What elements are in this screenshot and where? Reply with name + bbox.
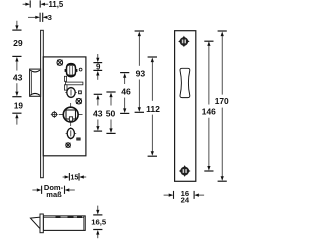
svg-text:16,5: 16,5 <box>91 218 107 227</box>
svg-text:50: 50 <box>106 109 116 119</box>
svg-text:43: 43 <box>93 109 103 119</box>
svg-text:146: 146 <box>202 106 216 116</box>
svg-text:112: 112 <box>146 104 160 114</box>
svg-text:11,5: 11,5 <box>49 0 64 9</box>
svg-text:46: 46 <box>121 87 131 97</box>
svg-text:43: 43 <box>13 72 23 82</box>
svg-text:24: 24 <box>181 196 190 205</box>
svg-text:maß: maß <box>46 190 62 199</box>
svg-text:3: 3 <box>48 13 52 22</box>
svg-text:29: 29 <box>13 38 23 48</box>
svg-text:93: 93 <box>136 69 146 79</box>
svg-text:170: 170 <box>215 96 229 106</box>
svg-text:15: 15 <box>70 173 78 182</box>
svg-text:19: 19 <box>14 102 24 111</box>
